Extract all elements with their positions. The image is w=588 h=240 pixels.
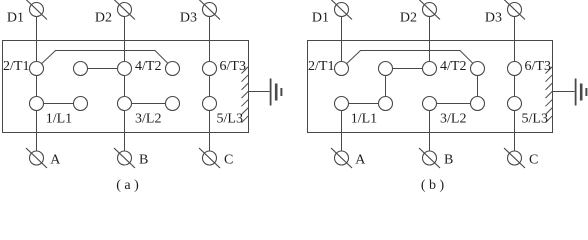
wire 3/L2 to B (b) [429, 104, 431, 159]
wire 1/L1 to A (a) [36, 104, 38, 159]
svg-text:3/L2: 3/L2 [135, 112, 161, 127]
svg-text:D1: D1 [312, 10, 329, 25]
node bottom link post (b) [471, 97, 485, 111]
node 5/L3 stud (b) [508, 97, 522, 111]
wire D3 to terminal 6/T3 (b) [514, 10, 516, 69]
node 6/T3 stud (a) [203, 62, 217, 76]
earth ground symbol (b) [576, 79, 587, 106]
jumper wire 2/T1 to link post, raised rail (a) [37, 51, 173, 69]
svg-text:( b ): ( b ) [421, 178, 445, 192]
svg-text:5/L3: 5/L3 [217, 112, 243, 127]
node top post (a) [74, 62, 88, 76]
svg-text:A: A [50, 152, 61, 167]
svg-text:1/L1: 1/L1 [46, 112, 72, 127]
terminal B (a) [114, 148, 135, 168]
svg-text:D2: D2 [400, 10, 417, 25]
link bar between top post and 4/T2 (a) [81, 68, 125, 70]
svg-text:D1: D1 [7, 10, 24, 25]
wire D2 to terminal 4/T2 (b) [429, 10, 431, 69]
vertical link bar column 5 (a) [209, 69, 211, 104]
node 2/T1 stud (a) [30, 62, 44, 76]
terminal D2 (b) [419, 0, 440, 20]
node top post (b) [379, 62, 393, 76]
wire box to earth ground (b) [553, 91, 575, 93]
chassis hatching on box right edge (a) [242, 67, 249, 123]
svg-text:D3: D3 [180, 10, 197, 25]
terminal B (b) [419, 148, 440, 168]
terminal C (b) [504, 148, 525, 168]
link bar 1/L1 to bottom post (b) [342, 103, 386, 105]
svg-text:4/T2: 4/T2 [135, 59, 161, 74]
link bar 3/L2 to bottom post (a) [125, 103, 173, 105]
chassis hatching on box right edge (b) [546, 67, 553, 123]
wire D1 to terminal 2/T1 (b) [341, 10, 343, 69]
node 4/T2 stud (b) [423, 62, 437, 76]
svg-text:6/T3: 6/T3 [220, 59, 246, 74]
terminal A (b) [331, 148, 352, 168]
terminal D3 (b) [504, 0, 525, 20]
node 4/T2 stud (a) [118, 62, 132, 76]
node 3/L2 stud (a) [118, 97, 132, 111]
wire D2 to terminal 4/T2 (a) [124, 10, 126, 69]
svg-text:5/L3: 5/L3 [522, 112, 548, 127]
wire 3/L2 to B (a) [124, 104, 126, 159]
node 3/L2 stud (b) [423, 97, 437, 111]
svg-text:( a ): ( a ) [116, 178, 139, 192]
svg-text:D3: D3 [485, 10, 502, 25]
terminal box outline (a) [3, 41, 249, 133]
svg-text:3/L2: 3/L2 [440, 112, 466, 127]
terminal D3 (a) [199, 0, 220, 20]
wire 1/L1 to A (b) [341, 104, 343, 159]
vertical link bar column 5 (b) [514, 69, 516, 104]
svg-text:A: A [355, 152, 366, 167]
svg-text:4/T2: 4/T2 [440, 59, 466, 74]
vertical link bar column 3 (a) [124, 69, 126, 104]
terminal D1 (a) [26, 0, 47, 20]
vertical link bar column 1 (a) [36, 69, 38, 104]
svg-text:B: B [139, 152, 148, 167]
svg-text:1/L1: 1/L1 [351, 112, 377, 127]
node top link post (b) [471, 62, 485, 76]
terminal A (a) [26, 148, 47, 168]
wire 5/L3 to C (b) [514, 104, 516, 159]
node 1/L1 stud (a) [30, 97, 44, 111]
wire D3 to terminal 6/T3 (a) [209, 10, 211, 69]
svg-text:2/T1: 2/T1 [3, 59, 29, 74]
svg-text:C: C [529, 152, 538, 167]
node 5/L3 stud (a) [203, 97, 217, 111]
node 1/L1 stud (b) [335, 97, 349, 111]
svg-text:6/T3: 6/T3 [525, 59, 551, 74]
terminal D1 (b) [331, 0, 352, 20]
earth ground symbol (a) [271, 79, 282, 106]
vertical link bar column 2 (b) [385, 69, 387, 104]
vertical link bar column 4 (b) [477, 69, 479, 104]
terminal C (a) [199, 148, 220, 168]
terminal D2 (a) [114, 0, 135, 20]
svg-text:B: B [444, 152, 453, 167]
node bottom post (b) [379, 97, 393, 111]
terminal box outline (b) [308, 41, 553, 133]
svg-text:C: C [224, 152, 233, 167]
wire D1 to terminal 2/T1 (a) [36, 10, 38, 69]
svg-text:2/T1: 2/T1 [308, 59, 334, 74]
jumper wire 2/T1 to link post, raised rail (b) [342, 51, 478, 69]
link bar 1/L1 to bottom post (a) [37, 103, 81, 105]
node 2/T1 stud (b) [335, 62, 349, 76]
node 6/T3 stud (b) [508, 62, 522, 76]
wire 5/L3 to C (a) [209, 104, 211, 159]
node bottom post (a) [74, 97, 88, 111]
node bottom link post (a) [166, 97, 180, 111]
wire box to earth ground (a) [249, 91, 270, 93]
svg-text:D2: D2 [95, 10, 112, 25]
node top link post (a) [166, 62, 180, 76]
link bar 3/L2 to bottom post (b) [430, 103, 478, 105]
link bar between top post and 4/T2 (b) [386, 68, 430, 70]
